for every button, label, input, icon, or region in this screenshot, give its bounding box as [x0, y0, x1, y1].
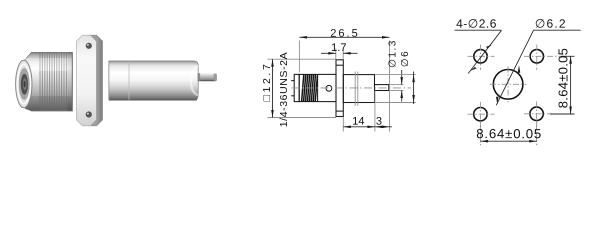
dimension dia 1.3 (pin) [389, 70, 403, 102]
socket tip lines [291, 81, 294, 96]
svg-text:4-∅2.6: 4-∅2.6 [456, 17, 497, 31]
body seam lines [355, 72, 358, 106]
svg-text:∅6.2: ∅6.2 [535, 17, 567, 31]
coupling nut back rim [67, 52, 72, 111]
hole bottom-left [474, 108, 487, 121]
flange mounting hole (bottom) [86, 111, 92, 117]
thread 1/4-36UNS-2A hatch [302, 74, 318, 101]
svg-text:□12.7: □12.7 [261, 62, 273, 102]
svg-text:∅6: ∅6 [400, 50, 411, 67]
svg-text:8.64±0.05: 8.64±0.05 [476, 126, 542, 141]
nut shading overlays [25, 58, 72, 71]
center pin [198, 73, 217, 81]
nut front rim ellipse [16, 60, 32, 108]
dimension 3 (pin length) [375, 126, 392, 128]
hole top-right [530, 50, 543, 63]
flange (side view) [336, 60, 343, 117]
dimension 26.5 [299, 37, 389, 131]
rear barrel [109, 61, 198, 100]
pin (side view) [375, 85, 389, 91]
hole bottom-right [530, 107, 543, 120]
svg-text:26.5: 26.5 [330, 28, 359, 40]
svg-text:14: 14 [352, 116, 364, 128]
centerline [292, 87, 412, 89]
dimension square 12.7 (flange size) [268, 59, 337, 117]
svg-text:3: 3 [376, 116, 382, 128]
dimension 14 [343, 91, 375, 132]
center circle dia 6.2 [493, 70, 523, 100]
flange side (depth) [83, 35, 103, 126]
coupling nut body [25, 52, 73, 111]
flange face plate [76, 35, 96, 126]
dimension 8.64 +/- 0.05 (right) [550, 56, 575, 114]
centerline crosses [468, 45, 566, 146]
svg-text:1.7: 1.7 [331, 42, 346, 54]
rear body [343, 75, 374, 103]
mid barrel outline [299, 74, 336, 101]
svg-text:1/4-36UNS-2A: 1/4-36UNS-2A [278, 52, 290, 127]
connector front face [294, 74, 299, 101]
solder hole on barrel [326, 85, 332, 91]
svg-text:8.64±0.05: 8.64±0.05 [555, 48, 570, 108]
hole top-left [474, 50, 487, 63]
flange mounting hole (top) [86, 43, 92, 49]
dimension 1.7 (flange thickness) [321, 49, 358, 60]
knurl ridges on coupling nut [40, 53, 66, 111]
svg-text:∅1.3: ∅1.3 [388, 39, 399, 68]
dimension 8.64 +/- 0.05 (bottom) [481, 121, 537, 146]
dimension dia 6 (body) [375, 72, 416, 105]
